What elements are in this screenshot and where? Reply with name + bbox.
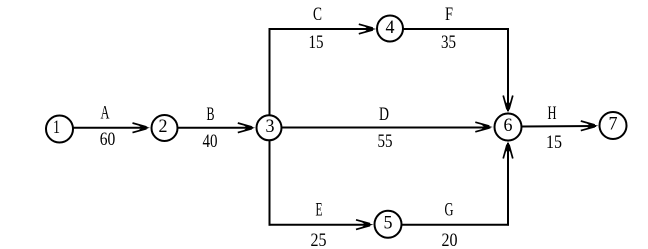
svg-text:60: 60 [100, 129, 116, 150]
wire 5-6 vertical [507, 143, 509, 226]
label E [316, 200, 323, 221]
svg-text:15: 15 [309, 32, 324, 53]
svg-text:E: E [316, 200, 323, 221]
wire 4-6 vertical [507, 28, 509, 111]
svg-text:4: 4 [386, 17, 395, 38]
value 20 [442, 230, 458, 249]
wire 3-5 horizontal [269, 224, 371, 226]
arrowhead into node 6 bottom [503, 141, 513, 159]
svg-text:B: B [207, 104, 215, 125]
arrowhead into node 5 [356, 220, 374, 230]
svg-text:55: 55 [378, 131, 393, 152]
arrowhead into node 6 left [475, 122, 493, 132]
svg-text:F: F [445, 4, 453, 25]
svg-text:7: 7 [609, 114, 618, 135]
label C [313, 4, 322, 25]
label F [445, 4, 453, 25]
arrowhead into node 2 [133, 123, 151, 133]
svg-text:25: 25 [311, 230, 327, 249]
svg-text:20: 20 [442, 230, 458, 249]
arrowhead into node 3 [238, 123, 256, 133]
wire 3-6 horizontal D [282, 127, 491, 129]
svg-text:G: G [445, 200, 454, 221]
value 15 [309, 32, 324, 53]
svg-text:5: 5 [384, 212, 393, 233]
svg-text:15: 15 [546, 132, 562, 153]
wire 5-6 horizontal G [402, 224, 510, 226]
label B [207, 104, 215, 125]
arrowhead into node 7 [581, 121, 599, 131]
svg-text:6: 6 [504, 115, 513, 136]
wire 3-4 vertical [269, 28, 271, 115]
svg-text:40: 40 [203, 131, 218, 152]
arrowhead into node 4 [359, 24, 377, 34]
node 4 [377, 16, 403, 42]
node 7 [600, 112, 627, 139]
label H [548, 103, 557, 124]
label A [101, 103, 110, 124]
svg-text:1: 1 [53, 117, 60, 138]
node 6 [495, 114, 522, 141]
value 25 [311, 230, 327, 249]
label D [379, 104, 389, 125]
node 3 [257, 115, 282, 140]
value 60 [100, 129, 116, 150]
svg-text:35: 35 [441, 32, 456, 53]
svg-text:3: 3 [266, 116, 275, 137]
value 55 [378, 131, 393, 152]
value 40 [203, 131, 218, 152]
node 2 [152, 115, 178, 141]
value 35 [441, 32, 456, 53]
wire 2-3 [178, 127, 253, 129]
node 5 [375, 211, 402, 238]
svg-text:H: H [548, 103, 557, 124]
svg-text:2: 2 [159, 116, 168, 137]
wire 4-6 horizontal F [403, 28, 509, 30]
svg-text:C: C [313, 4, 322, 25]
value 15 H [546, 132, 562, 153]
node 1 [46, 116, 73, 143]
svg-text:A: A [101, 103, 110, 124]
wire 6-7 H [522, 125, 596, 128]
svg-text:D: D [379, 104, 389, 125]
wire 3-5 vertical [269, 141, 271, 226]
wire 1-2 [73, 127, 148, 129]
label G [445, 200, 454, 221]
wire 3-4 horizontal [269, 28, 374, 30]
arrowhead into node 6 top [503, 96, 513, 114]
